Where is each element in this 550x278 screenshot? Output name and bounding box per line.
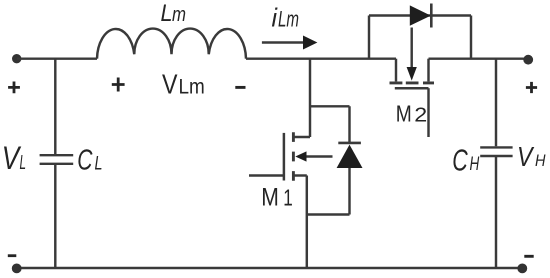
capacitor CH: bottom lead — [495, 157, 497, 268]
minus sign: VLm right — [235, 86, 245, 89]
node: top-left terminal — [12, 54, 21, 63]
transistor M1: source stub — [293, 174, 306, 176]
transistor M1: substrate arrow line — [306, 155, 333, 157]
wire: iLm current arrow — [262, 41, 304, 43]
transistor M1: channel segments — [292, 132, 295, 181]
transistor M2: substrate arrowhead — [407, 67, 417, 81]
capacitor CL: top lead — [54, 59, 56, 154]
wire: top rail from inductor to M2 drain — [246, 57, 396, 59]
svg-text:1: 1 — [283, 184, 293, 210]
node: top-right terminal — [523, 55, 533, 65]
node: bottom-left terminal — [12, 264, 22, 274]
wire: M1 drain branch down from node at x=310 — [309, 59, 311, 137]
wire: branch to M1 body diode (top) — [310, 106, 350, 143]
capacitor CL: bottom lead — [54, 165, 56, 268]
svg-text:V: V — [517, 141, 534, 172]
plus sign: right output — [526, 82, 537, 93]
transistor M1: gate bar — [283, 133, 286, 181]
capacitor CH: plates — [480, 147, 512, 156]
svg-text:L: L — [161, 0, 173, 27]
plus sign: left input — [8, 82, 20, 94]
wire: M1 source line down to bottom rail — [306, 176, 308, 269]
svg-text:Lm: Lm — [179, 76, 205, 99]
svg-text:L: L — [95, 153, 103, 175]
wire: bottom rail — [17, 267, 522, 269]
node: bottom-right terminal — [517, 264, 527, 274]
plus sign: VLm left — [112, 78, 125, 92]
transistor M2: source leg — [427, 59, 429, 82]
transistor M1: gate lead — [249, 174, 284, 176]
svg-text:C: C — [77, 145, 93, 177]
svg-text:2: 2 — [414, 104, 427, 127]
wire: top rail from M2 source to right node — [429, 57, 525, 59]
inductor Lm — [97, 29, 246, 59]
wire: M1 body diode bottom lead and connect — [307, 168, 350, 215]
svg-text:C: C — [452, 142, 468, 177]
wire: M2 diode branch left leg — [368, 16, 370, 59]
transistor M1: drain stub — [293, 136, 310, 138]
svg-text:M: M — [261, 183, 279, 211]
diode D2: M2 body diode (pointing right) — [410, 5, 431, 25]
transistor M1: substrate arrowhead — [295, 151, 306, 161]
svg-text:H: H — [470, 154, 480, 175]
transistor M2: gate lead — [427, 88, 429, 137]
svg-text:m: m — [172, 4, 186, 26]
transistor M2: channel contact bars — [390, 81, 435, 84]
transistor M2: substrate arrow line — [410, 28, 412, 68]
wire: M2 diode branch right leg — [470, 16, 472, 59]
svg-text:M: M — [396, 101, 412, 127]
diode D1: M1 body diode (pointing up) — [338, 142, 361, 145]
transistor M2: drain leg — [395, 59, 397, 82]
wire: top rail left segment — [17, 57, 97, 59]
minus sign: left input — [8, 254, 16, 257]
wire: M2 diode branch top — [369, 14, 471, 16]
svg-text:H: H — [535, 151, 546, 170]
capacitor CL: plates — [40, 155, 74, 164]
minus sign: right output — [524, 255, 533, 258]
transistor M2: gate bar — [395, 87, 429, 90]
svg-text:V: V — [162, 69, 178, 100]
svg-text:Lm: Lm — [278, 7, 299, 32]
svg-text:L: L — [20, 152, 27, 174]
capacitor CH: top lead — [495, 59, 497, 147]
